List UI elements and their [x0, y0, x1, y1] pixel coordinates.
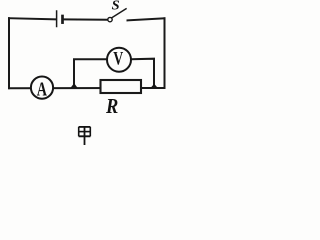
- svg-text:S: S: [112, 0, 120, 14]
- svg-text:V: V: [113, 50, 123, 70]
- svg-text:R: R: [105, 94, 118, 118]
- svg-text:A: A: [37, 79, 48, 101]
